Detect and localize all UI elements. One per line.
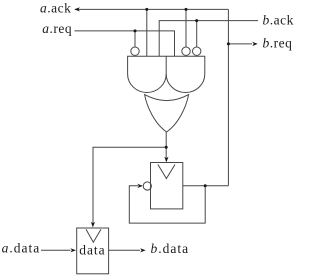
V symbol in latch box <box>158 165 175 179</box>
junction dot OR output <box>165 146 168 149</box>
wire OR output down <box>165 132 167 161</box>
wire V-box output <box>183 185 229 187</box>
arrowhead a.ack <box>74 7 80 11</box>
wire feedback loop <box>129 186 205 223</box>
junction dot b.req tap <box>227 42 230 45</box>
AND gate right <box>166 56 205 92</box>
arrowhead a.data <box>71 248 77 252</box>
arrowhead into latch box top <box>164 157 168 163</box>
svg-text:b.data: b.data <box>151 241 190 256</box>
junction dot latch output <box>204 184 207 187</box>
wire a.ack horizontal <box>75 8 228 10</box>
junction dot a.req/bubble <box>134 29 137 32</box>
inverting bubble on latch box <box>143 182 151 190</box>
svg-text:data: data <box>79 243 106 258</box>
input bubble left AND <box>131 47 139 55</box>
svg-text:a.req: a.req <box>42 21 72 36</box>
svg-text:a.ack: a.ack <box>40 0 71 15</box>
svg-text:b.ack: b.ack <box>263 12 294 27</box>
svg-text:b.req: b.req <box>263 36 293 51</box>
data latch box <box>77 228 109 274</box>
wire a.req branch to bubble <box>134 31 136 47</box>
wire b.ack branch to right AND bubble <box>196 21 198 47</box>
wire b.ack horizontal <box>159 21 258 57</box>
wire latch control to data latch <box>93 147 166 226</box>
input bubble right AND a <box>182 47 190 55</box>
arrowhead b.req <box>252 42 257 46</box>
V notch on data latch <box>86 229 101 242</box>
junction dot a.ack/left-AND <box>145 8 148 11</box>
arrowhead into latch bubble <box>137 184 143 188</box>
wire right rail (a.ack return) <box>227 9 229 185</box>
arrowhead b.data <box>140 248 146 252</box>
junction dot b.ack/bubble <box>195 19 198 22</box>
wire a.ack branch to left AND <box>146 9 148 56</box>
wire a.ack branch to right AND bubble <box>185 9 187 47</box>
wire a.req horizontal <box>75 31 175 56</box>
latch box U1 <box>151 163 183 209</box>
wire a.data <box>41 249 71 251</box>
input bubble right AND b <box>193 47 201 55</box>
arrowhead into data latch top <box>91 222 95 228</box>
svg-text:a.data: a.data <box>2 241 41 256</box>
AND gate left <box>128 56 167 92</box>
OR gate pointing down <box>145 95 189 132</box>
junction dot a.ack/bubble <box>185 8 188 11</box>
wire b.req branch <box>228 43 252 45</box>
wire b.data <box>109 249 140 251</box>
